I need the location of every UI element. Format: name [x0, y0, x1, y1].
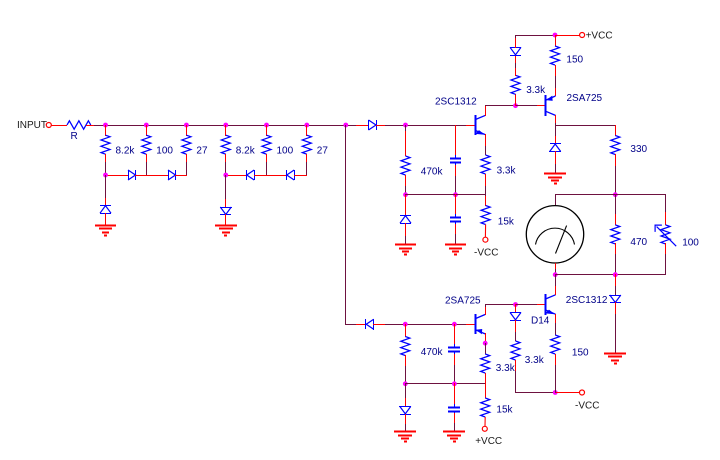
diode D8 clamp [220, 207, 232, 215]
wire rail to diode D5 [356, 125, 369, 127]
wire Q1 collector lead [485, 105, 487, 116]
wire D12 ground stub [615, 314, 617, 353]
svg-text:3.3k: 3.3k [496, 363, 516, 374]
wire Q1 emitter to 3.3k [485, 146, 487, 155]
wire network2 bus c [294, 175, 307, 177]
svg-text:330: 330 [630, 144, 647, 155]
resistor 150 top [551, 46, 560, 65]
diode D9 series [366, 319, 374, 330]
svg-text:8.2k: 8.2k [116, 146, 136, 157]
wire 3.3k2 bottom lead [485, 373, 487, 398]
wire 470 to rail [615, 254, 617, 275]
ground top cap column [445, 245, 466, 255]
wire D10 bottom lead [515, 55, 517, 63]
svg-text:-VCC: -VCC [575, 401, 599, 412]
svg-text:2SC1312: 2SC1312 [566, 295, 608, 306]
wire Q2 collector lead [555, 115, 557, 124]
wire cap C4 top lead [454, 383, 456, 407]
wire 8.2k top lead [105, 125, 107, 136]
wire Q1 base lead [466, 125, 476, 127]
wire 150b bottom lead [555, 354, 557, 365]
capacitor C1 [450, 155, 461, 166]
node 470 bottom [613, 272, 618, 277]
wire D13 lead [405, 398, 407, 407]
ground bottom 470k column [394, 432, 416, 442]
wire +VCC rail right [555, 35, 580, 37]
wire cap C2 top lead [455, 194, 457, 217]
wire 8.2k to bus [105, 162, 107, 175]
wire meter bottom lead [555, 263, 557, 269]
wire to Q3 base node [385, 324, 456, 326]
wire 100 top lead [146, 125, 148, 136]
wire Q3 base lead [466, 324, 475, 326]
svg-text:2SC1312: 2SC1312 [435, 96, 477, 107]
wire -VCC rail bottom [515, 392, 556, 394]
wire input to R [51, 125, 67, 127]
svg-text:27: 27 [317, 146, 329, 157]
resistor 15k bottom [481, 398, 490, 417]
wire 27 bottom lead [306, 154, 308, 162]
ground network2 [215, 226, 237, 236]
node Q3 emitter [483, 341, 488, 346]
wire D10 top lead [515, 37, 517, 48]
svg-text:100: 100 [156, 146, 173, 157]
wire meter bottom stub [555, 269, 557, 275]
node stage2 cap top [452, 322, 457, 327]
resistor R [67, 121, 91, 129]
svg-text:100: 100 [277, 146, 294, 157]
svg-text:3.3k: 3.3k [497, 166, 517, 177]
wire 470k bottom lead [405, 175, 407, 187]
wire network2 drop lead [225, 199, 227, 207]
wire Q2 collector node [555, 123, 557, 126]
wire Q4 collector to rail [555, 274, 557, 286]
node 470k top [403, 123, 408, 128]
wire D14 to 3.3k [515, 332, 517, 341]
wire C3 to bias rail [454, 365, 456, 384]
wire cap C2 bottom lead [455, 224, 457, 234]
svg-text:150: 150 [566, 54, 583, 65]
input terminal [46, 123, 51, 128]
wire 8.2k bottom lead [225, 154, 227, 162]
wire 470k2 top lead [405, 324, 407, 337]
node bias rail mid [453, 192, 458, 197]
diode D4 clamp [400, 216, 411, 224]
wire diode D5 to node [376, 125, 386, 127]
node bias2 rail mid [452, 381, 457, 386]
wire clamp drop [555, 125, 557, 136]
wire right branch lead [615, 274, 617, 286]
wire 15k to -VCC [484, 225, 486, 238]
capacitor C4 [448, 404, 460, 414]
resistor 100 [262, 135, 271, 154]
node stage2 470k top [403, 322, 408, 327]
wire D3 to ground [105, 213, 107, 225]
svg-text:470k: 470k [421, 347, 444, 358]
wire D10 stub [515, 63, 517, 68]
wire node to Q1 base [455, 125, 466, 127]
wire bias rail [405, 194, 486, 196]
wire right branch stub [615, 286, 617, 295]
ground top clamp [544, 174, 566, 184]
potentiometer 100 arrow [655, 225, 676, 246]
wire stage2 rail a [345, 324, 357, 326]
wire D8 to ground [225, 214, 227, 225]
node bias rail left [403, 192, 408, 197]
resistor 27 [182, 135, 191, 154]
wire Q1 collector to node [485, 105, 516, 107]
node top of 100 resistor [144, 123, 149, 128]
wire 330 bottom lead [615, 154, 617, 166]
wire 27 to bus [186, 162, 188, 175]
wire network1 bus b [135, 175, 168, 177]
terminal +VCC bottom [482, 426, 487, 431]
diode D5 series [369, 120, 377, 130]
diode D2 [168, 170, 176, 180]
wire 8.2k bottom lead [105, 154, 107, 162]
wire C4 ground stub [454, 423, 456, 432]
wire D4 to ground [405, 223, 407, 236]
wire 470k2 to bias rail [405, 366, 407, 384]
wire Q1 emitter lead [485, 134, 487, 146]
wire network2 bus a [225, 175, 247, 177]
wire bias drop lead [405, 194, 407, 216]
svg-text:R: R [71, 131, 78, 142]
wire D14 bottom lead [515, 320, 517, 332]
wire 470k to bias rail [405, 186, 407, 195]
wire Q2 base lead [537, 105, 546, 107]
wire pot to rail [665, 254, 667, 275]
wire 27 to bus [306, 162, 308, 175]
wire 8.2k top lead [225, 125, 227, 136]
svg-text:D14: D14 [531, 315, 550, 326]
transistor Q2 2SA725 [546, 95, 556, 116]
wire D9 to node [373, 324, 386, 326]
wire Q3 collector lead [485, 306, 487, 315]
ground network1 [95, 226, 116, 236]
svg-text:15k: 15k [496, 405, 513, 416]
wire 27 top lead [186, 125, 188, 136]
resistor 27 [302, 135, 311, 154]
wire collector rail bottom [485, 304, 516, 306]
wire 100 to bus [266, 162, 268, 175]
wire 15k top lead [485, 196, 487, 206]
wire network1 bus a [105, 175, 128, 177]
wire 100 top lead [266, 125, 268, 136]
wire Q3 emitter lead [485, 333, 487, 342]
wire 3.3k3 bottom lead [515, 360, 517, 371]
svg-text:470: 470 [630, 237, 647, 248]
resistor 470 [611, 225, 620, 244]
wire node to Q2 base [515, 105, 537, 107]
wire Q2 emitter lead [555, 88, 557, 96]
svg-text:3.3k: 3.3k [526, 85, 546, 96]
potentiometer 100 body [661, 225, 670, 244]
wire top rail [94, 125, 357, 127]
wire node to Q3 base [455, 324, 466, 326]
wire 100 to bus [146, 162, 148, 175]
node top of 8.2k resistor [223, 123, 228, 128]
wire D12 to ground [615, 302, 617, 314]
wire pot bottom lead [665, 243, 667, 254]
diode D13 clamp [399, 406, 411, 414]
wire D13 to ground [405, 414, 407, 424]
wire 150 to Q2 emitter [555, 76, 557, 88]
wire 150b to -VCC rail [555, 365, 557, 393]
terminal +VCC top [580, 33, 585, 38]
svg-text:2SA725: 2SA725 [445, 295, 481, 306]
wire node to Q4 base [515, 304, 537, 306]
transistor Q3 2SA725 [475, 314, 485, 334]
node meter rail top [613, 192, 618, 197]
ground bottom cap column [443, 432, 465, 442]
node Q1 collector / R 3.3k [513, 103, 518, 108]
capacitor C3 [448, 344, 460, 355]
node Q3 collector / D14 [513, 302, 518, 307]
wire 470k2 bottom lead [405, 355, 407, 366]
wire -VCC rail right [555, 392, 580, 394]
resistor 3.3k emitter bottom [481, 354, 490, 373]
wire cap C3 top lead [454, 324, 456, 345]
svg-text:15k: 15k [498, 216, 515, 227]
node network1 bus junction [103, 173, 108, 178]
wire 3.3k to bias rail [485, 174, 487, 186]
svg-text:27: 27 [196, 146, 208, 157]
wire +VCC rail [515, 35, 555, 37]
wire 27 top lead [306, 125, 308, 136]
diode D12 [609, 295, 621, 303]
svg-text:INPUT: INPUT [17, 120, 47, 131]
wire 100 bottom lead [266, 154, 268, 162]
terminal -VCC bottom [580, 390, 585, 395]
wire network1 drop lead [105, 198, 107, 206]
diode D14 [510, 312, 521, 320]
wire pot drop [665, 194, 667, 212]
node top of 27 resistor [304, 123, 309, 128]
wire D13 ground stub [405, 424, 407, 432]
resistor 3.3k D14 column [511, 341, 520, 360]
wire 330 top lead [615, 125, 617, 136]
resistor 100 [142, 135, 151, 154]
svg-text:470k: 470k [421, 167, 444, 178]
svg-text:+VCC: +VCC [586, 31, 613, 42]
resistor 15k top [481, 206, 490, 225]
resistor 470k [401, 156, 410, 175]
wire meter top rail [555, 194, 666, 196]
resistor 8.2k [101, 135, 110, 154]
diode D11 clamp [549, 144, 561, 152]
wire D14 top lead [515, 304, 517, 313]
wire 330 to meter rail [615, 166, 617, 195]
svg-text:100: 100 [682, 238, 699, 249]
wire 8.2k to bus [225, 162, 227, 175]
wire Q4 emitter lead [555, 314, 557, 323]
diode D1 [128, 170, 136, 180]
terminal -VCC top [483, 237, 488, 242]
wire C1 to bias rail [455, 176, 457, 195]
wire D11 to ground [555, 151, 557, 164]
svg-text:150: 150 [572, 347, 589, 358]
wire 470 top lead [615, 194, 617, 214]
transistor Q4 2SC1312 [546, 294, 556, 315]
wire 3.3k to 15k [485, 186, 487, 196]
wire R lead right [86, 125, 94, 127]
wire clamp diode lead [555, 136, 557, 144]
wire Q4 base lead [537, 304, 546, 306]
wire 150 bottom lead [555, 65, 557, 76]
node network2 bus junction [223, 173, 228, 178]
wire cap C3 bottom lead [454, 354, 456, 365]
wire pot top lead [665, 212, 667, 225]
capacitor C2 [450, 214, 461, 225]
wire cap C4 bottom lead [454, 413, 456, 423]
wire cap C1 bottom lead [455, 165, 457, 176]
node right branch [613, 272, 618, 277]
node top of 100 resistor [264, 123, 269, 128]
wire 150 top lead [555, 35, 557, 46]
wire Q4 emitter to 150 [555, 323, 557, 335]
wire 15k2 to +VCC [484, 417, 486, 426]
resistor 8.2k [221, 135, 230, 154]
svg-text:+VCC: +VCC [475, 436, 502, 447]
node top of 27 resistor [184, 123, 189, 128]
wire emitter to 3.3k bottom [485, 343, 487, 354]
node +VCC rail [553, 33, 558, 38]
node bias2 rail left [403, 381, 408, 386]
meter M1 [526, 206, 583, 263]
wire network1 bus c [175, 175, 187, 177]
node rail split [343, 123, 348, 128]
wire meter bottom rail [555, 274, 666, 276]
svg-text:-VCC: -VCC [474, 247, 498, 258]
wire drop to stage2 [345, 125, 347, 325]
wire network2 bus b [254, 175, 287, 177]
node top of 8.2k resistor [103, 123, 108, 128]
diode D3 clamp [100, 206, 111, 214]
wire bias2 rail [405, 383, 486, 385]
wire to Q1 base node [385, 125, 456, 127]
svg-text:2SA725: 2SA725 [567, 93, 603, 104]
resistor 150 bottom [551, 335, 560, 354]
wire D10 to +VCC rail [515, 35, 517, 38]
wire Q3 collector to node [485, 304, 487, 307]
wire C2 ground stub [455, 234, 457, 245]
transistor Q1 2SC1312 [476, 115, 486, 135]
ground top 470k column [395, 245, 416, 255]
wire 100 bottom lead [146, 154, 148, 162]
wire meter top stub [555, 194, 557, 206]
svg-text:3.3k: 3.3k [525, 355, 545, 366]
wire collector rail right [555, 125, 616, 127]
wire 3.3k3 to -VCC rail [515, 371, 517, 393]
diode D7 [287, 170, 295, 180]
diode D6 [247, 170, 255, 180]
svg-text:8.2k: 8.2k [236, 146, 256, 157]
wire 3.3k collector bottom lead [515, 94, 517, 106]
wire 470k top red [405, 131, 407, 156]
wire 3.3k to diode D10 [515, 68, 517, 76]
wire 27 bottom lead [186, 154, 188, 162]
node meter bottom [553, 272, 558, 277]
ground right branch [604, 354, 626, 364]
resistor 3.3k emitter top [481, 155, 490, 174]
wire Q4 collector lead [555, 286, 557, 295]
wire bias2 drop [405, 383, 407, 398]
resistor 330 [611, 136, 620, 155]
wire D4 ground stub [405, 236, 407, 245]
wire 470 top red [615, 214, 617, 225]
diode D10 [510, 47, 521, 55]
wire 470 bottom lead [615, 243, 617, 254]
resistor 3.3k collector [511, 75, 520, 94]
wire cap C1 top lead [455, 125, 457, 156]
wire network1 drop [105, 175, 107, 198]
wire 470k top lead [405, 125, 407, 131]
wire rail to diode D9 [356, 324, 366, 326]
node -VCC rail [553, 390, 558, 395]
wire network2 drop [225, 175, 227, 199]
wire D11 ground stub [555, 164, 557, 174]
resistor 470k bottom [401, 337, 410, 356]
